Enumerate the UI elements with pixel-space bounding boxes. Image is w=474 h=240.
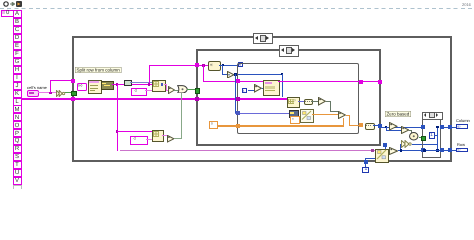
tunnels structure 3 left [236, 79, 240, 83]
indicator Row I32 [456, 148, 468, 153]
tunnels structure 2 right [378, 80, 382, 84]
wire: subset output pink to right tunnels [278, 81, 378, 82]
wire: string length output blue [219, 65, 238, 66]
wire: triB to oval [409, 130, 412, 131]
constant box -2 (upper) [131, 88, 147, 96]
outer case structure border [72, 36, 452, 162]
wire: to lower triangle [162, 135, 167, 136]
for loop structure 3 border [237, 63, 359, 134]
wire: pink inside s2 top [198, 65, 208, 66]
node: string length small [124, 80, 132, 86]
wire: boolean to structure2 selector [187, 89, 196, 90]
wire: row blue wire [398, 150, 457, 151]
wire: lower triangle output rising to gate [174, 138, 181, 139]
outer case selector label [253, 33, 273, 45]
node: triangle after QR2 [389, 147, 398, 155]
node: loop iteration i [242, 88, 247, 93]
node: comparison triangle (upper row) [168, 86, 175, 94]
wire: to lower index node [117, 131, 152, 132]
subVI Split row from column [88, 80, 102, 95]
node: triangle inside loop [254, 84, 262, 93]
array index box [1, 10, 14, 18]
label Split row from column [75, 67, 121, 73]
array constant of letters (elements A..V + empty) [0, 0, 474, 1]
free label 2016 [462, 3, 471, 7]
node: chevron select [401, 140, 412, 148]
wire: long orange from constant with riser [216, 125, 345, 126]
tunnels outer right [448, 125, 452, 129]
wire: to subVI tunnel [50, 80, 75, 81]
tunnel structure 2 bottom [383, 143, 387, 147]
wire: descend to row B [326, 101, 331, 102]
tunnels structure 3 right [359, 80, 363, 84]
wire: column blue row [382, 127, 424, 128]
wire: chevron out to down [412, 144, 439, 145]
toolbar icon: dark button with orange glyph [16, 1, 22, 7]
wire: pill to triangle A3 [311, 101, 318, 102]
node: conversion stack top [289, 110, 300, 118]
structure 4 selector label [422, 112, 443, 120]
wire: triangle to or gate [174, 90, 178, 91]
tunnel on outer bottom border [364, 160, 368, 164]
wire: triangle to subset [262, 88, 265, 89]
node: String Length [208, 61, 221, 71]
constant 1 below structure [362, 167, 369, 174]
wire: cell's name to Empty String node [38, 92, 57, 93]
node: pill with dots (upper) [304, 99, 314, 105]
indicator Column I32 [456, 124, 468, 129]
node: triangle A right [389, 122, 398, 131]
label Column [456, 119, 470, 123]
node: quotient and remainder [300, 109, 314, 123]
node: Index Array (upper) [152, 80, 166, 92]
wire: search out to pill [298, 101, 304, 102]
wire: 1D string array from constant [22, 98, 288, 100]
wire: long violet wire to quotient node [120, 150, 376, 151]
node: increment triangle [227, 71, 235, 79]
node: String Subset [263, 80, 280, 96]
junction on pink wire [116, 83, 118, 85]
wire: index out jog [164, 84, 167, 85]
node: quotient remainder 2 [375, 149, 389, 163]
string control: cell's name [27, 90, 40, 97]
node: conversion stack bottom orange [290, 116, 300, 124]
wire: pink into subset node [240, 81, 264, 82]
wire: QR out orange [312, 114, 338, 115]
label Zero based [385, 111, 411, 117]
tunnels structure 2 left [195, 63, 199, 67]
node: pill with dots (right) [365, 123, 375, 129]
tunnel: name string into outer case [71, 79, 75, 83]
wire: match pattern output [112, 84, 152, 85]
wire: to row indicator [444, 150, 457, 151]
node: triangle B right [401, 126, 410, 134]
wire: to column indicator [444, 127, 457, 128]
wire: triangle B out descend exit [346, 115, 351, 116]
wire: riser from constant 1 below [365, 158, 366, 167]
constant 0-0 [77, 83, 87, 91]
wire: pill to s2 tunnel blue [373, 125, 378, 126]
wire: oval to s4 selector [419, 137, 423, 138]
label cell's name [27, 86, 47, 90]
wire: blue row to lower stack [235, 113, 289, 114]
wire: -2 box to index node [145, 90, 153, 91]
junction on name wire [49, 92, 51, 94]
tunnel: array wire into outer case [71, 97, 75, 101]
wire: pink riser to structure2 tunnel [149, 65, 150, 84]
wire: inner vertical link [437, 127, 438, 151]
structure 2 selector label [279, 45, 299, 57]
node: triangle row B [338, 111, 346, 119]
node: Or gate [177, 85, 188, 94]
dashed separator line [0, 8, 474, 9]
case structure 4 border [422, 117, 441, 158]
wire: i to triangle [248, 90, 254, 91]
tunnel: boolean selector terminal outer case [71, 91, 77, 97]
structure 2 case border [196, 49, 381, 147]
toolbar icon: operate tool [3, 1, 9, 7]
constant box -2 (lower) [130, 136, 148, 145]
node: Index Array (lower) [152, 130, 165, 142]
wire: chevron input riser [400, 144, 401, 151]
toolbar icon: right arrow [10, 2, 15, 6]
wire: boolean to outer case selector [65, 92, 72, 93]
wire: branch up from name wire [50, 80, 51, 93]
wire: thin blue to index node [130, 82, 153, 83]
node: Match Pattern [101, 81, 114, 90]
constant: orange 0 [209, 121, 218, 130]
node: comparison triangle (lower row) [167, 135, 175, 143]
tunnels structure 4 [421, 125, 425, 129]
wire: increment out junction branches [235, 74, 283, 75]
node: comparison triangle row A [318, 97, 326, 106]
wire: pink vertical long drop [117, 84, 118, 151]
node: N loop count terminal [238, 62, 243, 67]
wire: lower -2 to node [146, 139, 152, 140]
junction on column wire [385, 126, 388, 129]
constant 1 inside s4 [429, 132, 435, 139]
node: Search 1D Array [287, 97, 300, 108]
node: round oval [409, 132, 419, 141]
label Row [457, 143, 465, 147]
node: Empty String/Path? [56, 90, 66, 97]
